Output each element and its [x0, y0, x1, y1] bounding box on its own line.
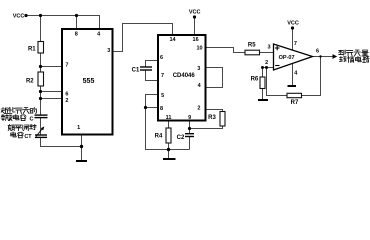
- svg-text:7: 7: [294, 41, 297, 47]
- svg-text:R5: R5: [248, 43, 256, 49]
- svg-text:3: 3: [267, 45, 270, 51]
- svg-text:8: 8: [160, 106, 163, 112]
- svg-text:R1: R1: [28, 47, 36, 53]
- svg-text:8: 8: [75, 31, 78, 37]
- svg-text:R4: R4: [155, 133, 163, 139]
- svg-text:555: 555: [83, 78, 95, 85]
- svg-text:9: 9: [188, 115, 191, 121]
- svg-text:6: 6: [316, 49, 319, 55]
- svg-text:VCC: VCC: [287, 21, 299, 27]
- svg-text:16: 16: [193, 37, 199, 43]
- svg-text:C1: C1: [132, 67, 140, 73]
- svg-text:6: 6: [65, 91, 68, 97]
- svg-text:1: 1: [77, 125, 80, 131]
- svg-text:R6: R6: [251, 77, 259, 83]
- svg-text:11: 11: [166, 115, 172, 121]
- svg-text:R7: R7: [291, 100, 299, 106]
- svg-text:2: 2: [65, 98, 68, 104]
- svg-text:CT: CT: [24, 134, 32, 140]
- svg-text:OP-07: OP-07: [279, 55, 295, 61]
- svg-text:C2: C2: [177, 135, 185, 141]
- svg-text:5: 5: [161, 93, 164, 99]
- svg-text:6: 6: [160, 55, 163, 61]
- svg-text:14: 14: [169, 37, 176, 43]
- svg-text:VCC: VCC: [189, 10, 201, 16]
- svg-text:7: 7: [65, 62, 68, 68]
- svg-text:10: 10: [196, 45, 202, 51]
- svg-text:2: 2: [197, 105, 200, 111]
- svg-text:R2: R2: [26, 78, 34, 84]
- svg-text:VCC: VCC: [13, 14, 25, 20]
- svg-text:7: 7: [161, 73, 164, 79]
- svg-text:C: C: [30, 117, 34, 123]
- svg-text:CD4046: CD4046: [173, 73, 196, 79]
- svg-text:3: 3: [197, 66, 200, 72]
- svg-text:3: 3: [107, 48, 110, 54]
- svg-text:R3: R3: [208, 115, 216, 121]
- svg-text:2: 2: [265, 60, 268, 66]
